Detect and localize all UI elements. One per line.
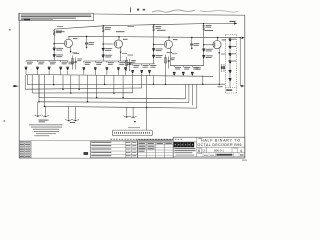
svg-text:HALF BINARY TO: HALF BINARY TO: [201, 139, 240, 143]
svg-text:B96-0-1: B96-0-1: [214, 149, 224, 153]
svg-text:CS: CS: [202, 149, 206, 153]
svg-text:OCTAL DECODER B96: OCTAL DECODER B96: [198, 143, 242, 147]
